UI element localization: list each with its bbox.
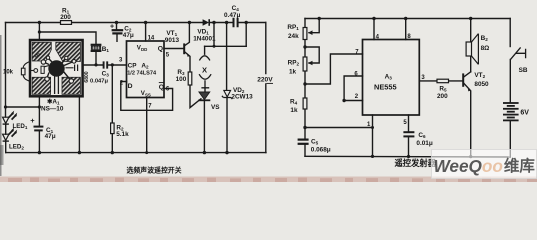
- wire right edge 220V: [265, 23, 267, 153]
- wire zener column: [226, 23, 228, 153]
- capacitor C6: [403, 132, 414, 136]
- resistor 10k on left edge: [23, 62, 30, 82]
- IC A3 NE555: [363, 40, 420, 116]
- wire pin14: [145, 23, 147, 42]
- battery 6V: [503, 103, 519, 120]
- diode VD1: [203, 19, 210, 26]
- speaker B2: [466, 34, 478, 65]
- svg-text:0.47μ: 0.47μ: [224, 12, 240, 19]
- component B1: [91, 45, 102, 51]
- wire RP2 wiper loop: [305, 47, 319, 63]
- junction dots left: [4, 17, 473, 158]
- wire pin7: [146, 98, 148, 153]
- svg-text:14: 14: [148, 36, 155, 42]
- wire VT1 collector: [184, 23, 189, 46]
- left edge smudge: [0, 145, 4, 165]
- svg-text:10k: 10k: [3, 70, 14, 76]
- transistor VT2: [463, 73, 471, 91]
- resistor R1: [61, 21, 72, 25]
- pot RP1: [303, 28, 312, 40]
- svg-text:0.068μ: 0.068μ: [311, 147, 331, 154]
- svg-text:C6: C6: [418, 132, 426, 139]
- svg-text:CP: CP: [128, 63, 138, 70]
- svg-text:R5: R5: [439, 86, 447, 93]
- wire battery to rail: [509, 121, 511, 158]
- svg-text:6V: 6V: [520, 110, 529, 117]
- capacitor C4: [234, 18, 238, 27]
- wire RP1 wiper loop: [309, 19, 319, 33]
- wire pin8: [405, 19, 407, 40]
- paper background: [0, 0, 537, 182]
- wire B1 top link: [39, 23, 96, 45]
- wire bottom rail right: [305, 155, 510, 158]
- wire top rail right: [305, 18, 510, 20]
- capacitor C3: [104, 61, 108, 68]
- svg-text:24k: 24k: [288, 33, 299, 40]
- svg-text:X: X: [202, 65, 207, 74]
- tiny resistor 68k inside: [41, 66, 44, 73]
- svg-text:VT1: VT1: [166, 30, 177, 37]
- svg-text:+: +: [110, 24, 114, 31]
- tiny cap inside: [75, 65, 78, 72]
- svg-text:200: 200: [60, 14, 71, 21]
- svg-text:8050: 8050: [474, 81, 489, 88]
- svg-text:Q: Q: [158, 46, 163, 53]
- svg-text:B1: B1: [102, 46, 110, 53]
- svg-text:A2: A2: [141, 63, 149, 70]
- wire C2 leads: [116, 23, 119, 42]
- svg-text:RP2: RP2: [288, 59, 300, 66]
- watermark box: [432, 150, 537, 179]
- wire VT2 emitter: [463, 83, 470, 157]
- wire lamp stub from rail: [213, 23, 215, 47]
- resistor R2: [111, 123, 115, 134]
- wire R2 column: [111, 65, 113, 153]
- wire pin2 D-loop: [121, 82, 173, 111]
- svg-text:C5: C5: [311, 139, 319, 146]
- svg-text:8Ω: 8Ω: [481, 45, 490, 52]
- wire box right lead: [78, 96, 80, 152]
- pot RP2: [303, 57, 312, 71]
- wire pin6 path: [344, 76, 362, 101]
- wire LED-C1 horizontal: [6, 106, 40, 108]
- IC A2 74LS74: [127, 41, 165, 98]
- svg-text:47μ: 47μ: [45, 133, 56, 140]
- transistor VT1: [184, 43, 190, 57]
- wire pin1: [372, 115, 374, 156]
- svg-text:✱A1: ✱A1: [47, 98, 60, 105]
- wire pin5 to VT1 base: [164, 48, 184, 50]
- svg-text:Q: Q: [159, 84, 164, 91]
- capacitor C2: [112, 30, 124, 33]
- LED2: [3, 128, 18, 142]
- svg-text:遥控发射器: 遥控发射器: [395, 158, 437, 168]
- wire speaker column: [470, 19, 472, 72]
- LED1: [3, 111, 18, 125]
- transistor blob: [48, 60, 64, 76]
- wire switch to battery: [509, 60, 511, 103]
- capacitor C1: [34, 127, 44, 131]
- svg-text:0.047μ: 0.047μ: [90, 79, 109, 85]
- sensor module A1 NS-10: [21, 40, 82, 96]
- svg-text:R4: R4: [290, 99, 298, 106]
- junction dots right: [318, 17, 321, 20]
- svg-text:B2: B2: [481, 35, 489, 42]
- wire pin1 branch: [305, 127, 373, 129]
- capacitor C5: [298, 140, 309, 144]
- bottom pink band: [0, 177, 537, 183]
- svg-text:选频声波遥控开关: 选频声波遥控开关: [127, 165, 182, 174]
- resistor R3: [188, 72, 192, 85]
- wire R3 to VS gate: [190, 85, 201, 108]
- svg-text:VS: VS: [211, 104, 220, 111]
- svg-text:+: +: [30, 116, 35, 125]
- wire C4 branch: [245, 23, 247, 47]
- resistor R5: [437, 79, 449, 83]
- wire CP node: [83, 51, 127, 65]
- svg-text:VT2: VT2: [474, 72, 485, 79]
- svg-text:LED2: LED2: [9, 143, 24, 150]
- svg-text:A3: A3: [385, 74, 393, 81]
- wire VT1 emitter to R3: [184, 52, 190, 72]
- svg-text:47μ: 47μ: [123, 32, 134, 39]
- svg-text:200: 200: [437, 93, 448, 100]
- wire lamp to VS: [204, 88, 206, 92]
- wire left edge: [5, 23, 7, 118]
- zener VD2: [222, 90, 233, 99]
- svg-text:220V: 220V: [257, 77, 273, 84]
- svg-text:1/2 74LS74: 1/2 74LS74: [127, 71, 157, 77]
- wire pin2 path: [344, 100, 362, 102]
- svg-text:100: 100: [176, 76, 187, 83]
- wire top rail: [6, 22, 266, 24]
- svg-text:5.1k: 5.1k: [116, 131, 129, 138]
- wire LED column lower: [5, 124, 7, 152]
- wire bottom rail: [6, 152, 266, 154]
- wire lamp column: [204, 46, 206, 54]
- wire switch top: [509, 19, 511, 47]
- wire pin7 path: [305, 54, 363, 84]
- wire pin5 C6: [408, 115, 410, 157]
- lamp X socket: [199, 56, 211, 88]
- svg-text:1k: 1k: [290, 107, 298, 114]
- svg-text:0.01μ: 0.01μ: [416, 140, 432, 147]
- svg-text:2CW13: 2CW13: [231, 94, 253, 101]
- resistor R4: [303, 98, 307, 109]
- wire jog: [205, 45, 247, 47]
- wire pin4: [373, 19, 375, 40]
- switch SB: [510, 47, 525, 59]
- wire pin3 to R5 to VT2: [419, 80, 463, 82]
- svg-text:1N4001: 1N4001: [193, 35, 216, 42]
- svg-text:WeeQoo维库: WeeQoo维库: [434, 156, 536, 176]
- svg-text:SB: SB: [519, 67, 528, 74]
- wire VT2 collector: [463, 72, 470, 78]
- wire main left column: [304, 19, 306, 157]
- svg-text:NE555: NE555: [374, 82, 397, 91]
- svg-text:RP1: RP1: [287, 24, 299, 31]
- svg-text:LED1: LED1: [13, 123, 28, 130]
- svg-text:D: D: [128, 83, 133, 90]
- svg-text:C3: C3: [102, 71, 110, 78]
- svg-text:1k: 1k: [289, 68, 297, 75]
- wire VS cathode: [203, 100, 205, 152]
- svg-text:9013: 9013: [165, 37, 180, 44]
- thyristor VS: [198, 92, 210, 100]
- wire C1 column: [38, 96, 40, 152]
- svg-text:NS—10: NS—10: [41, 106, 64, 113]
